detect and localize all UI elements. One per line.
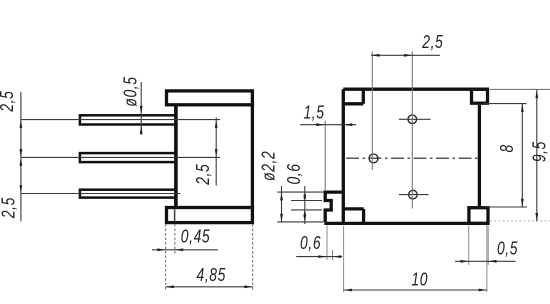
svg-text:9,5: 9,5: [529, 141, 549, 162]
pin 3: [80, 190, 176, 198]
arrow at pin2 upper: [20, 149, 23, 157]
pin 3 centerline: [21, 193, 181, 195]
extension line 10 right: [486, 225, 488, 292]
dimension line 0,45: [152, 249, 218, 251]
arrow dia2,2 upper: [280, 192, 283, 200]
extension line tab left: [324, 121, 326, 192]
extension line slot top: [291, 200, 322, 202]
arrow 0,6L c: [303, 210, 306, 216]
svg-text:4,85: 4,85: [197, 265, 227, 285]
arrow 10 left: [344, 289, 352, 292]
dimension line 1,5: [300, 124, 356, 126]
arrow 4,85 right: [244, 285, 252, 288]
extension line slot left: [326, 226, 328, 261]
extension line 9,5 bottom: [490, 220, 550, 222]
extension line tab top: [277, 191, 324, 193]
svg-text:2,5: 2,5: [0, 90, 18, 112]
left view bottom flange: [167, 208, 253, 223]
arrow 4,85 left: [166, 285, 174, 288]
svg-text:0,45: 0,45: [181, 226, 211, 246]
dimension line dia2,2: [281, 186, 283, 222]
dimension line 0,5: [455, 260, 516, 262]
hole left: [369, 154, 378, 163]
hole top crossline: [399, 118, 431, 120]
dimension line pin pitch: [20, 92, 22, 221]
arrow 0,6L a: [303, 193, 306, 199]
arrow 0,6B left: [318, 255, 326, 258]
dimension line 4,85: [166, 286, 253, 288]
arrow 0,5 left: [460, 260, 468, 263]
dimension line 9,5: [536, 90, 538, 222]
svg-text:ø0,5: ø0,5: [120, 76, 140, 106]
top view left edge: [342, 89, 345, 223]
svg-text:1,5: 1,5: [303, 103, 324, 123]
arrow pin dia upper: [140, 106, 143, 114]
svg-text:ø2,2: ø2,2: [258, 151, 278, 181]
dimension line pin diameter: [140, 82, 142, 135]
corner post top-left: [343, 89, 363, 104]
extension line left hole column: [371, 52, 373, 171]
screw tab with slot: [325, 192, 343, 222]
dimension line 8: [521, 104, 523, 207]
extension line 0,5 left: [468, 226, 470, 265]
top view top edge: [343, 88, 488, 91]
arrow 9,5 upper: [535, 90, 538, 98]
arrow 0,45 right: [175, 248, 183, 251]
dimension line 10: [344, 289, 487, 291]
arrow 9,5 lower: [535, 213, 538, 221]
extension line center hole column: [411, 52, 413, 209]
extension line tab bottom: [277, 221, 324, 223]
pin 2: [80, 153, 176, 162]
arrow 1,5 right: [344, 123, 352, 126]
arrow 2,5 right: [404, 54, 412, 57]
arrow 2,5 left: [371, 54, 379, 57]
arrow 0,45 left: [157, 248, 165, 251]
left view body edge through flange: [174, 209, 176, 221]
arrow 0,6B right: [333, 255, 341, 258]
left view body left edge: [174, 105, 178, 208]
extension line slot inner: [332, 250, 334, 260]
svg-text:0,6: 0,6: [300, 233, 321, 253]
arrow 10 right: [479, 289, 487, 292]
hole bottom crossline: [399, 194, 429, 196]
arrow at pin1: [20, 120, 23, 128]
arrow at pin2 lower: [20, 157, 23, 165]
svg-text:2,5: 2,5: [193, 163, 213, 185]
extension line 8 top: [484, 103, 527, 105]
pin 2 centerline: [21, 156, 220, 158]
top view right edge: [478, 103, 481, 208]
dimension line internal pitch: [215, 118, 217, 186]
svg-text:2,5: 2,5: [0, 197, 19, 219]
corner post bottom-left: [343, 209, 363, 224]
left view body right edge: [251, 105, 254, 208]
arrow pin dia lower: [140, 126, 143, 134]
corner post top-right: [472, 89, 488, 103]
arrow 0,6L d: [303, 216, 306, 222]
arrow 1,5 left: [316, 123, 324, 126]
pin 1: [80, 115, 176, 124]
hole bottom: [409, 190, 418, 199]
extension line flange left: [165, 224, 167, 291]
extension line 8 bottom: [484, 206, 527, 208]
arrow 0,5 right: [488, 260, 496, 263]
arrow at pin3: [20, 185, 23, 193]
arrow dia2,2 lower: [280, 214, 283, 222]
arrow 8 upper: [521, 104, 524, 112]
hole top: [408, 115, 417, 124]
horizontal centerline: [346, 157, 478, 159]
extension line slot bottom: [291, 209, 322, 211]
arrow 0,6L b: [303, 195, 306, 201]
pin 1 centerline: [21, 119, 220, 121]
extension line 10 left: [343, 226, 345, 292]
arrow internal lower: [215, 149, 218, 157]
top view bottom edge: [324, 222, 488, 225]
dimension line 2,5 top: [371, 54, 440, 56]
svg-text:8: 8: [497, 144, 517, 152]
svg-text:0,5: 0,5: [497, 239, 518, 259]
arrow internal upper: [215, 120, 218, 128]
svg-text:10: 10: [411, 270, 428, 290]
extension line body left: [174, 224, 176, 254]
left view top flange: [167, 91, 253, 105]
dimension line 0,6 bottom: [296, 256, 342, 258]
arrow 8 lower: [521, 199, 524, 207]
svg-text:0,6: 0,6: [284, 163, 304, 184]
extension line 9,5 top: [490, 88, 550, 90]
dimension line 0,6 left: [304, 186, 306, 224]
corner post bottom-right: [469, 208, 488, 224]
svg-text:2,5: 2,5: [421, 32, 443, 52]
extension line flange right: [252, 224, 254, 291]
extension line 0,5 right: [487, 226, 489, 265]
